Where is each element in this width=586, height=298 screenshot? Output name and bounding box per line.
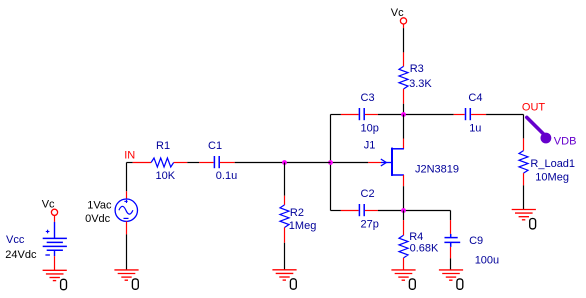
wire R1 to C1	[187, 162, 199, 164]
resistor R4	[399, 211, 439, 270]
wire IN corner down to source V	[126, 163, 128, 192]
svg-text:C3: C3	[361, 92, 375, 104]
wire C1 to gate node through R2 node	[235, 162, 331, 164]
wire source pin (red)	[403, 175, 405, 186]
wire Vc bubble to battery (red)	[54, 216, 56, 222]
battery Vcc 24Vdc	[5, 222, 67, 261]
wire source V to ground	[126, 221, 128, 234]
wire R3 to drain node	[403, 104, 405, 115]
wire C2 to source node and to C9 corner	[378, 210, 451, 212]
svg-text:0Vdc: 0Vdc	[85, 213, 111, 225]
svg-text:100u: 100u	[475, 255, 499, 267]
wire Vc bubble stub (red)	[403, 24, 405, 28]
svg-text:J1: J1	[364, 140, 376, 152]
ground under battery	[43, 270, 67, 289]
wire battery to ground (red)	[54, 256, 56, 270]
ground under C9	[439, 270, 463, 289]
probe VDB marker	[527, 117, 577, 147]
svg-text:0.1u: 0.1u	[216, 170, 237, 182]
capacitor C2	[341, 188, 379, 230]
node Vc left bubble	[51, 209, 57, 215]
wire top row: corner to C3	[331, 114, 341, 116]
source V1 1Vac 0Vdc	[85, 199, 137, 225]
wire feedback vertical	[330, 115, 332, 211]
ground under R_Load1	[512, 210, 536, 229]
capacitor C9	[444, 211, 499, 270]
svg-text:24Vdc: 24Vdc	[5, 249, 37, 261]
svg-text:R1: R1	[156, 140, 170, 152]
svg-text:R_Load1: R_Load1	[530, 158, 575, 170]
transistor J1 J2N3819	[364, 140, 459, 176]
resistor R_Load1	[519, 138, 575, 185]
svg-text:R2: R2	[290, 207, 304, 219]
resistor R2	[280, 163, 316, 270]
wire drain pin (red)	[403, 139, 405, 149]
wire drain node down	[403, 115, 405, 139]
svg-text:10Meg: 10Meg	[535, 171, 569, 183]
junction drain node	[401, 112, 406, 117]
wire C4 to OUT corner	[486, 114, 523, 116]
ground under R2	[272, 270, 296, 289]
wire C2 row: corner to C2	[331, 210, 341, 212]
ground under R4	[391, 270, 415, 289]
svg-text:J2N3819: J2N3819	[415, 164, 459, 176]
svg-text:C4: C4	[468, 92, 482, 104]
svg-text:1u: 1u	[469, 123, 481, 135]
svg-text:C1: C1	[208, 140, 222, 152]
capacitor C3	[341, 92, 379, 134]
svg-text:R3: R3	[410, 63, 424, 75]
svg-text:1Vac: 1Vac	[87, 200, 112, 212]
ground under source V	[114, 270, 138, 289]
svg-text:3.3K: 3.3K	[409, 78, 432, 90]
junction source node	[401, 208, 406, 213]
svg-text:0.68K: 0.68K	[410, 243, 439, 255]
svg-text:Vc: Vc	[391, 7, 404, 19]
wire gate pin (red)	[368, 162, 381, 164]
junction gate node	[328, 160, 333, 165]
wire source to C2 node	[403, 186, 405, 210]
svg-text:VDB: VDB	[554, 136, 577, 148]
svg-text:C2: C2	[361, 188, 375, 200]
junction R2 node	[282, 160, 287, 165]
svg-text:R4: R4	[409, 231, 423, 243]
node Vc top bubble	[400, 18, 406, 24]
svg-text:IN: IN	[124, 149, 135, 161]
svg-text:10K: 10K	[156, 170, 176, 182]
wire Vc to R3	[403, 28, 405, 52]
wire R_Load1 to ground	[523, 185, 525, 209]
svg-text:27p: 27p	[361, 218, 379, 230]
svg-text:Vcc: Vcc	[6, 234, 25, 246]
svg-text:10p: 10p	[361, 122, 379, 134]
capacitor C4	[454, 92, 486, 135]
resistor R1	[151, 140, 187, 182]
wire top row: C3 to C4 through drain node	[378, 114, 454, 116]
resistor R3	[399, 52, 432, 103]
wire IN corner to R1 (black then red IN pin)	[127, 162, 133, 164]
capacitor C1	[199, 140, 237, 182]
svg-text:OUT: OUT	[522, 102, 546, 114]
wire OUT corner down	[523, 115, 525, 139]
wire gate to feedback node	[331, 162, 369, 164]
svg-text:1Meg: 1Meg	[289, 220, 317, 232]
svg-text:C9: C9	[469, 235, 483, 247]
